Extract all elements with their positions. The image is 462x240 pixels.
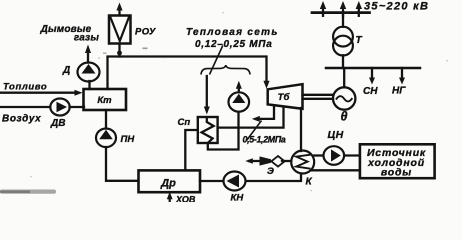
generator sine wave <box>337 96 352 101</box>
svg-text:Э: Э <box>267 166 274 177</box>
wire fuel line into boiler <box>0 92 75 94</box>
svg-text:ХОВ: ХОВ <box>175 195 196 203</box>
extraction export pipe with left arrow <box>259 106 274 119</box>
wire turbine exhaust to condenser K <box>300 108 302 151</box>
wire cold water lower line <box>312 169 360 171</box>
arrowhead turbine inlet down <box>263 81 269 89</box>
fan DV circle <box>50 99 69 116</box>
svg-text:Т: Т <box>356 35 363 46</box>
arrowhead HV feeder 1 <box>320 1 326 9</box>
svg-text:ДВ: ДВ <box>50 118 65 129</box>
wire generator to LV bus <box>343 68 345 87</box>
svg-text:К: К <box>306 177 313 188</box>
svg-text:θ: θ <box>341 110 348 124</box>
reducing unit ROU internal V <box>111 18 129 42</box>
wire XOB stub <box>169 198 171 203</box>
brace over network pipes <box>201 65 250 74</box>
condensate pump KN rotor triangle <box>227 175 240 188</box>
arrowhead flue gas up <box>85 45 91 54</box>
fan DV rotor triangle <box>57 102 68 112</box>
svg-text:Д: Д <box>62 65 70 76</box>
ejector diffuser diamond <box>271 156 284 167</box>
arrowhead HV feeder 2 <box>340 1 346 9</box>
svg-text:НГ: НГ <box>392 86 406 97</box>
feed pump PN <box>96 129 116 148</box>
wire air line into boiler <box>0 106 50 108</box>
heater Sp box <box>198 117 218 143</box>
wire condenser to circulation pump CN <box>314 154 323 156</box>
svg-text:35~220 кВ: 35~220 кВ <box>364 1 429 13</box>
arrowhead fuel into boiler <box>75 90 83 96</box>
svg-text:Кт: Кт <box>97 95 112 106</box>
network pump SP circle <box>229 92 250 111</box>
svg-text:КН: КН <box>231 193 245 203</box>
reducing unit ROU box <box>109 16 131 44</box>
wire Sp drain to deaerator <box>185 130 198 170</box>
wire boiler to feed pump PN <box>105 110 107 129</box>
turbine Tb trapezoid <box>268 84 303 109</box>
wire condenser bottom to condensate line <box>246 174 301 182</box>
LV bus bar <box>326 67 420 70</box>
svg-text:0,5-1,2МПа: 0,5-1,2МПа <box>243 135 286 145</box>
leader line extraction pressure label <box>247 121 262 141</box>
svg-text:воды: воды <box>381 167 412 179</box>
condenser K circle <box>291 151 314 174</box>
wire feed pump to deaerator Dr <box>106 147 138 181</box>
wire transformer leads <box>342 55 344 68</box>
svg-text:СН: СН <box>363 86 378 97</box>
arrowhead NG feeder down <box>399 78 405 85</box>
HV feeder stubs <box>322 8 324 16</box>
arrowhead network supply up <box>236 81 242 89</box>
reducing unit ROU stub <box>118 44 120 57</box>
network pump rotor triangle <box>232 94 245 103</box>
fan D (smoke exhauster) <box>78 63 100 82</box>
svg-text:0,12–0,25 МПа: 0,12–0,25 МПа <box>195 39 272 50</box>
feed pump PN rotor triangle <box>99 130 113 139</box>
svg-text:газы: газы <box>74 33 99 44</box>
svg-text:Др: Др <box>160 178 176 190</box>
HV bus bar <box>312 11 370 14</box>
shaft turbine-generator <box>303 94 334 96</box>
extraction steam pipe turbine to Sp <box>218 107 284 128</box>
svg-text:ЦН: ЦН <box>328 129 344 141</box>
ejector nozzle solid <box>260 156 272 165</box>
wire boiler to flue fan <box>88 81 90 89</box>
condensate pump KN <box>224 172 246 191</box>
heater Sp coil zigzag <box>202 118 214 144</box>
svg-text:Топливо: Топливо <box>3 82 47 93</box>
deaerator Dr box <box>139 170 201 192</box>
arrowhead ROU outlet up <box>116 3 122 11</box>
svg-text:РОУ: РОУ <box>135 27 157 38</box>
boiler Kt <box>84 89 127 110</box>
transformer T circles <box>333 27 353 47</box>
wire deaerator to condensate pump KN <box>200 180 223 182</box>
svg-text:Тепловая сеть: Тепловая сеть <box>186 27 279 38</box>
cold water source box <box>360 144 435 178</box>
wire CN to cold water source <box>344 154 359 156</box>
wire Sp bottom loop to network pump <box>208 112 239 150</box>
condenser coil zigzag <box>296 155 309 169</box>
wire NG feeder <box>401 68 403 79</box>
arrowhead XOB makeup water up <box>167 192 173 200</box>
ejector suction line <box>249 160 261 162</box>
fan D rotor triangle <box>82 64 96 74</box>
circulation pump CN rotor triangle <box>331 149 341 161</box>
leader line heating network label <box>210 46 223 75</box>
arrowhead SN feeder down <box>369 78 375 85</box>
wire condenser to ejector <box>282 160 291 162</box>
svg-text:ПН: ПН <box>121 134 136 145</box>
wire steam riser boiler to main <box>108 57 267 90</box>
scan smudge bottom left <box>0 190 56 194</box>
svg-text:Сп: Сп <box>178 117 191 128</box>
generator G circle <box>333 87 355 109</box>
arrowhead HV feeder 3 <box>356 1 362 9</box>
arrowhead ejector exhaust left <box>245 158 253 164</box>
circulation pump CN <box>324 146 345 165</box>
wire flue gas arrow line <box>87 52 89 63</box>
svg-text:Воздух: Воздух <box>2 114 41 125</box>
arrowhead network return into Sp <box>204 107 210 115</box>
svg-text:Тб: Тб <box>278 92 291 103</box>
junction dot ROU tap <box>117 51 122 56</box>
wire SN feeder <box>371 68 373 79</box>
reducing unit ROU outlet arrow line <box>118 9 120 15</box>
arrowhead extraction export left <box>252 116 260 122</box>
network supply arrow line above pump <box>238 88 240 93</box>
network return pipe with arrow into Sp <box>206 76 208 108</box>
